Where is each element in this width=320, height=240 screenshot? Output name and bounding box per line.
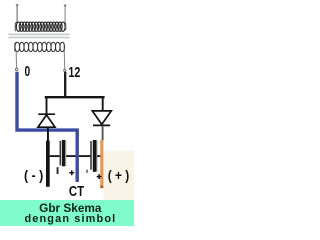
svg-text:CT: CT <box>69 183 84 200</box>
svg-text:dengan simbol: dengan simbol <box>25 213 117 225</box>
svg-text:12: 12 <box>68 63 80 80</box>
svg-text:0: 0 <box>24 62 30 80</box>
svg-text:( + ): ( + ) <box>108 167 129 183</box>
svg-text:( - ): ( - ) <box>24 167 43 183</box>
